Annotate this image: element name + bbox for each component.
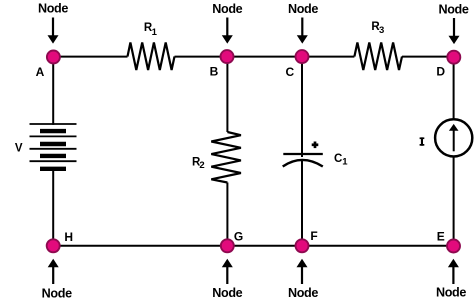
svg-text:Node: Node <box>436 285 466 299</box>
wire current source to E <box>453 157 455 246</box>
capacitor C1 <box>283 154 323 167</box>
label R2 <box>192 157 205 171</box>
svg-text:Node: Node <box>212 286 242 300</box>
battery V <box>30 124 77 169</box>
current source I <box>435 119 472 156</box>
wire bottom F to E <box>302 245 454 247</box>
svg-text:B: B <box>210 64 219 78</box>
svg-text:Node: Node <box>288 286 318 300</box>
wire battery to H <box>52 171 54 246</box>
svg-text:1: 1 <box>152 27 158 38</box>
node B <box>221 50 234 63</box>
node H <box>47 239 60 252</box>
node G <box>221 239 234 252</box>
svg-text:E: E <box>437 229 445 243</box>
svg-text:F: F <box>310 229 317 243</box>
svg-text:D: D <box>436 65 445 79</box>
node E <box>447 240 460 253</box>
svg-text:2: 2 <box>199 160 204 171</box>
wire B to C <box>227 56 302 58</box>
wire R1 to B <box>175 56 228 58</box>
label R3 <box>371 21 384 36</box>
wire R2 to G <box>226 183 228 246</box>
arrow to node H (bottom) <box>48 259 59 284</box>
arrow to node G (bottom) <box>222 259 233 284</box>
wire top A to R1 <box>53 56 127 58</box>
arrow to node D (top) <box>449 18 460 44</box>
wire C1 to F <box>301 160 303 246</box>
label R1 <box>144 22 158 38</box>
svg-text:Node: Node <box>438 2 468 16</box>
resistor R2 <box>211 132 241 183</box>
wire A to battery <box>52 57 54 125</box>
label I <box>420 137 425 145</box>
arrow to node B (top) <box>222 18 233 44</box>
svg-text:3: 3 <box>379 25 384 36</box>
wire D to current source <box>453 57 455 120</box>
resistor R1 <box>128 43 175 71</box>
wire bottom H to G <box>53 245 227 247</box>
wire C to R3 <box>302 56 354 58</box>
arrow to node A (top) <box>48 18 59 44</box>
node D <box>447 51 460 64</box>
svg-text:A: A <box>36 65 45 79</box>
label C1 <box>334 153 348 168</box>
svg-text:1: 1 <box>342 157 348 168</box>
node C <box>296 50 309 63</box>
resistor R3 <box>354 43 402 71</box>
svg-text:H: H <box>64 230 73 244</box>
arrow to node E (bottom) <box>448 259 459 284</box>
wire R3 to D <box>402 56 454 58</box>
svg-text:C: C <box>285 65 294 79</box>
arrow to node C (top) <box>297 18 308 44</box>
svg-text:Node: Node <box>212 2 242 16</box>
svg-text:C: C <box>334 153 342 165</box>
wire bottom G to F <box>227 245 302 247</box>
wire B to R2 <box>226 57 228 132</box>
svg-text:Node: Node <box>38 2 68 16</box>
svg-text:Node: Node <box>42 286 72 300</box>
wire C to C1 <box>301 57 303 157</box>
svg-text:G: G <box>234 229 243 243</box>
plus sign of C1 <box>312 142 319 149</box>
svg-text:V: V <box>15 142 23 154</box>
node A <box>47 51 60 64</box>
arrow to node F (bottom) <box>297 259 308 284</box>
node F <box>296 239 309 252</box>
svg-text:Node: Node <box>288 2 318 16</box>
